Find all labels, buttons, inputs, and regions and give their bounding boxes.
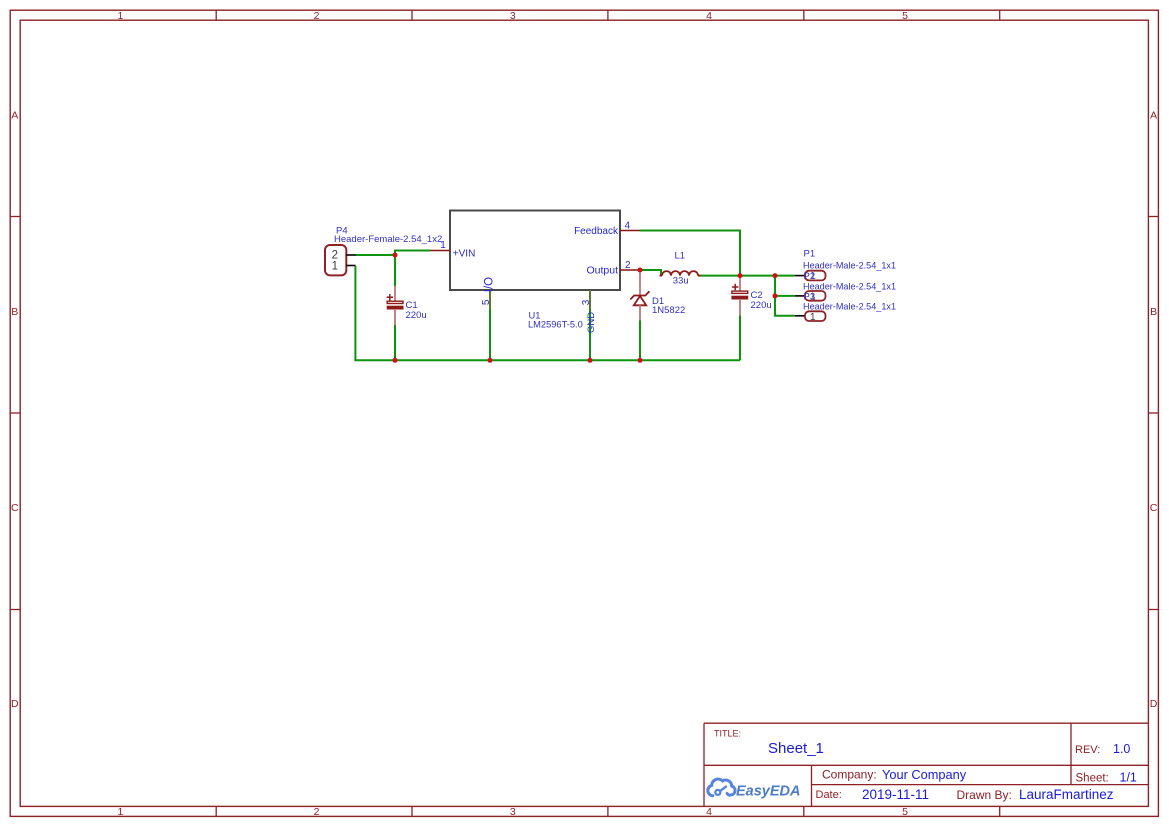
svg-text:A: A — [11, 110, 18, 122]
P1 pin stub — [795, 275, 805, 277]
junction dot D1 at rail — [638, 358, 643, 363]
junction dot C1 at rail — [393, 358, 398, 363]
EasyEDA logo cloud icon — [708, 779, 735, 796]
header P4 — [325, 226, 442, 276]
svg-text:1: 1 — [117, 10, 123, 22]
L1 coil humps — [662, 271, 698, 276]
C1 top lead — [394, 286, 396, 301]
junction dot U1 pin3 at rail — [588, 358, 593, 363]
svg-text:1: 1 — [117, 806, 123, 818]
bottom ruler tick 3 — [607, 806, 609, 816]
svg-text:Company:: Company: — [822, 767, 877, 781]
wire P2 junction down to P3 — [775, 296, 795, 316]
junction dot P2 branch node — [773, 293, 778, 298]
svg-text:220u: 220u — [406, 310, 427, 321]
title block left edge — [703, 723, 705, 806]
svg-text:3: 3 — [510, 10, 516, 22]
right ruler tick A/B — [1148, 216, 1158, 218]
C1 bottom lead — [394, 309, 396, 325]
svg-text:2: 2 — [625, 260, 631, 271]
svg-text:I/O: I/O — [484, 277, 496, 292]
svg-text:1: 1 — [332, 261, 338, 273]
title block logo cell divider — [811, 765, 813, 806]
svg-text:Header-Female-2.54_1x2: Header-Female-2.54_1x2 — [334, 234, 442, 245]
svg-text:1.0: 1.0 — [1113, 742, 1130, 756]
wire D1 bottom to rail — [639, 320, 641, 360]
P2 body — [805, 291, 826, 301]
C2 plus sign — [732, 284, 738, 290]
C1 bottom plate — [387, 306, 403, 309]
svg-text:L1: L1 — [675, 251, 686, 262]
C1 plus sign — [387, 294, 393, 300]
bottom ruler tick 1 — [215, 806, 217, 816]
title block Company/Date row divider — [812, 784, 1149, 786]
P3 body — [805, 311, 826, 321]
U1 body rectangle — [450, 211, 620, 291]
svg-text:33u: 33u — [673, 275, 689, 286]
svg-text:Date:: Date: — [816, 789, 842, 801]
bottom ruler tick 5 — [999, 806, 1001, 816]
D1 top lead — [639, 270, 641, 296]
svg-text:Header-Male-2.54_1x1: Header-Male-2.54_1x1 — [803, 281, 896, 291]
P2 pin stub — [795, 295, 805, 297]
IC U1 LM2596T-5.0 — [431, 211, 640, 334]
wire C1 bottom to rail — [394, 325, 396, 360]
svg-text:1N5822: 1N5822 — [652, 305, 685, 316]
P1 body — [805, 271, 826, 281]
svg-text:3: 3 — [581, 299, 592, 305]
svg-text:LauraFmartinez: LauraFmartinez — [1019, 787, 1114, 802]
L1 right stub — [698, 275, 701, 277]
top ruler tick 3 — [607, 10, 609, 20]
P4 pin 1 stub — [346, 265, 355, 267]
U1 pin 2 stub — [620, 269, 640, 271]
wire U1 pin3 to rail — [589, 309, 591, 360]
svg-text:D: D — [1150, 698, 1158, 710]
svg-text:B: B — [11, 306, 18, 318]
C2 bottom plate — [732, 296, 748, 299]
right ruler tick B/C — [1148, 412, 1158, 414]
svg-text:Output: Output — [586, 265, 618, 277]
right ruler tick C/D — [1148, 609, 1158, 611]
svg-text:5: 5 — [481, 299, 492, 305]
svg-text:Your Company: Your Company — [882, 767, 967, 782]
svg-text:Sheet_1: Sheet_1 — [768, 740, 824, 757]
junction dot P1 branch node — [773, 273, 778, 278]
wire P4 pin1 down to ground rail — [355, 266, 740, 360]
P4 body — [325, 245, 346, 275]
top ruler tick 1 — [215, 10, 217, 20]
svg-text:B: B — [1150, 306, 1157, 318]
svg-text:EasyEDA: EasyEDA — [736, 784, 800, 800]
C1 top plate — [387, 301, 403, 303]
svg-text:1: 1 — [440, 240, 446, 251]
svg-text:4: 4 — [625, 221, 631, 232]
svg-text:2019-11-11: 2019-11-11 — [862, 787, 929, 802]
capacitor C1 — [387, 286, 427, 325]
top ruler tick 5 — [999, 10, 1001, 20]
left ruler tick B/C — [10, 412, 20, 414]
wire L1 to C2 junction to P1 — [698, 275, 795, 277]
left ruler tick A/B — [10, 216, 20, 218]
svg-text:Sheet:: Sheet: — [1076, 772, 1109, 784]
L1 left stub — [660, 275, 663, 277]
wire output junction to L1 — [640, 270, 661, 276]
C2 top plate — [732, 291, 748, 293]
header P2 — [795, 271, 896, 302]
diode D1 1N5822 — [630, 270, 685, 321]
svg-text:Header-Male-2.54_1x1: Header-Male-2.54_1x1 — [803, 260, 896, 270]
svg-text:4: 4 — [706, 10, 712, 22]
header P1 — [795, 249, 896, 283]
svg-text:C: C — [1150, 502, 1158, 514]
svg-text:220u: 220u — [751, 300, 772, 311]
title block row divider under TITLE — [704, 764, 1148, 766]
svg-text:C: C — [11, 502, 19, 514]
bottom ruler tick 4 — [803, 806, 805, 816]
wire feedback net pin4 to C2 junction — [640, 231, 741, 276]
D1 schottky cathode bar — [630, 291, 649, 299]
U1 pin 4 stub — [620, 230, 640, 232]
svg-text:3: 3 — [510, 806, 516, 818]
svg-text:4: 4 — [706, 806, 712, 818]
svg-text:TITLE:: TITLE: — [714, 729, 741, 739]
svg-text:5: 5 — [902, 806, 908, 818]
svg-text:2: 2 — [314, 10, 320, 22]
U1 pin 1 stub — [431, 250, 451, 252]
title block top edge — [704, 722, 1148, 724]
svg-text:2: 2 — [314, 806, 320, 818]
P3 pin stub — [795, 315, 805, 317]
svg-text:D: D — [11, 698, 19, 710]
C2 top lead — [739, 276, 741, 291]
wire P4 pin2 to junction — [355, 254, 395, 256]
P4 pin 2 stub — [346, 254, 355, 256]
top ruler tick 2 — [411, 10, 413, 20]
bottom ruler tick 2 — [411, 806, 413, 816]
junction dot at VIN node — [393, 253, 398, 258]
title block REV column divider — [1070, 723, 1072, 784]
svg-text:+VIN: +VIN — [453, 249, 476, 260]
svg-text:5: 5 — [902, 10, 908, 22]
wire P1 junction down to P2 — [775, 276, 795, 296]
svg-text:Feedback: Feedback — [574, 226, 619, 237]
top ruler tick 4 — [803, 10, 805, 20]
wire U1 pin5 to rail — [489, 309, 491, 360]
svg-text:Header-Male-2.54_1x1: Header-Male-2.54_1x1 — [803, 302, 896, 312]
svg-text:Drawn By:: Drawn By: — [957, 788, 1012, 802]
junction dot U1 pin5 at rail — [488, 358, 493, 363]
U1 pin 3 stub — [589, 290, 591, 310]
svg-text:REV:: REV: — [1075, 744, 1100, 756]
D1 bottom lead — [639, 305, 641, 320]
svg-text:1: 1 — [810, 312, 816, 323]
svg-text:LM2596T-5.0: LM2596T-5.0 — [528, 320, 583, 330]
capacitor C2 — [732, 276, 772, 316]
U1 pin 5 stub — [489, 290, 491, 310]
wire C2 bottom to rail corner — [739, 316, 741, 361]
D1 triangle — [634, 296, 646, 305]
svg-text:GND: GND — [586, 312, 597, 333]
header P3 — [795, 292, 896, 323]
left ruler tick C/D — [10, 609, 20, 611]
wire junction up-left to U1 VIN — [395, 251, 431, 287]
inductor L1 — [660, 251, 701, 287]
junction dot output node — [638, 268, 643, 273]
svg-text:1/1: 1/1 — [1120, 770, 1137, 784]
svg-text:P1: P1 — [804, 249, 816, 260]
title block frame lines — [704, 723, 1148, 806]
C2 bottom lead — [739, 299, 741, 316]
svg-text:A: A — [1150, 110, 1157, 122]
junction dot C2 top node — [738, 273, 743, 278]
